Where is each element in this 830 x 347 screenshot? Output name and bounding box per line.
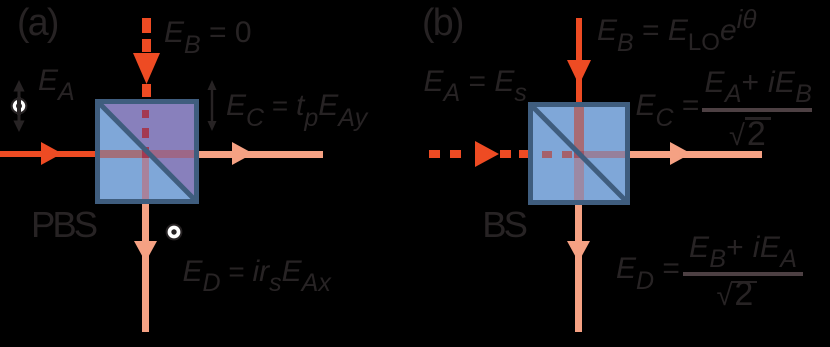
beam E_D output arrow of BS (salmon, downward): [567, 205, 590, 332]
in-cube dashed E_B beam segments (dark red): [142, 104, 149, 164]
beam E_C output arrow (salmon, to the right): [199, 142, 323, 165]
label E_A: [38, 66, 75, 96]
beam E_D output arrow (salmon, downward): [134, 204, 157, 332]
polarization symbol (vertical double arrow through circle) on input E_A: [3, 80, 35, 132]
label E_B = 0: [164, 18, 252, 48]
in-cube downward dusty beam (below center): [574, 158, 584, 201]
panel label (a): [17, 4, 58, 42]
beam E_A input arrow (bright red, from left into PBS): [0, 142, 100, 165]
out-of-plane polarization symbol (circle-dot) near E_D: [165, 223, 183, 241]
in-cube vertical red beam segment (above center): [574, 107, 584, 151]
label E_C = t_p E_Ay: [226, 91, 367, 121]
in-cube center crossing square: [574, 151, 584, 158]
BS cube body (blue): [528, 102, 630, 205]
label E_D = i r_s E_Ax: [183, 257, 331, 287]
PBS cube body (blue): [95, 99, 199, 204]
in-cube horizontal beam segment over purple: [149, 150, 195, 158]
in-cube center crossing square: [142, 147, 149, 158]
BS cube border and diagonal: [528, 102, 630, 205]
small double-headed arrow near E_C: [203, 80, 221, 131]
in-cube horizontal beam segment over blue: [100, 150, 142, 158]
label E_B = E_LO e^itheta: [597, 16, 757, 46]
label E_D = (E_B + iE_A)/sqrt2: [616, 230, 816, 315]
PBS cube purple upper-right triangle: [95, 99, 199, 204]
label E_C = (E_A + iE_B)/sqrt2: [635, 65, 830, 150]
PBS cube border and diagonal: [95, 99, 199, 204]
label E_A = E_s: [424, 67, 527, 97]
in-cube horizontal mauve beam (right of center): [584, 151, 627, 158]
beam E_C output arrow of BS (salmon, to the right): [630, 142, 762, 165]
in-cube dashed beam segments (from left): [542, 151, 575, 158]
beam E_B input arrow (bright red, from top into BS): [567, 18, 591, 103]
label PBS: [31, 207, 95, 244]
beam E_B dashed input arrow (bright red, from top into PBS): [133, 17, 160, 100]
beam E_A dashed input arrow (bright red, from left into BS): [429, 141, 528, 167]
panel label (b): [422, 4, 463, 42]
in-cube downward salmon beam segment: [142, 158, 149, 200]
label BS: [482, 207, 525, 244]
